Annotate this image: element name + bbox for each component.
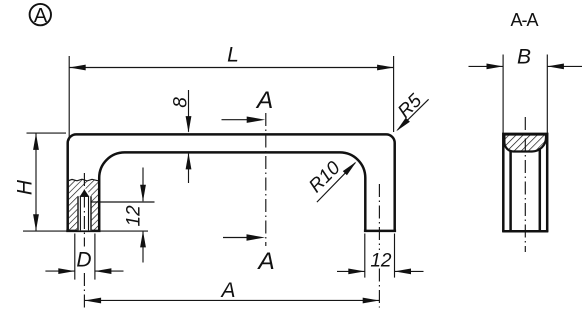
svg-text:D: D (76, 248, 91, 271)
svg-text:A: A (255, 87, 273, 114)
svg-text:A: A (256, 248, 274, 275)
svg-text:A: A (34, 5, 48, 27)
svg-text:B: B (517, 46, 531, 69)
svg-text:A-A: A-A (510, 10, 538, 30)
svg-text:H: H (14, 179, 37, 195)
svg-text:A: A (219, 279, 235, 302)
svg-text:8: 8 (171, 97, 192, 108)
svg-text:L: L (227, 44, 239, 67)
svg-text:12: 12 (123, 205, 144, 227)
svg-text:12: 12 (370, 251, 392, 272)
